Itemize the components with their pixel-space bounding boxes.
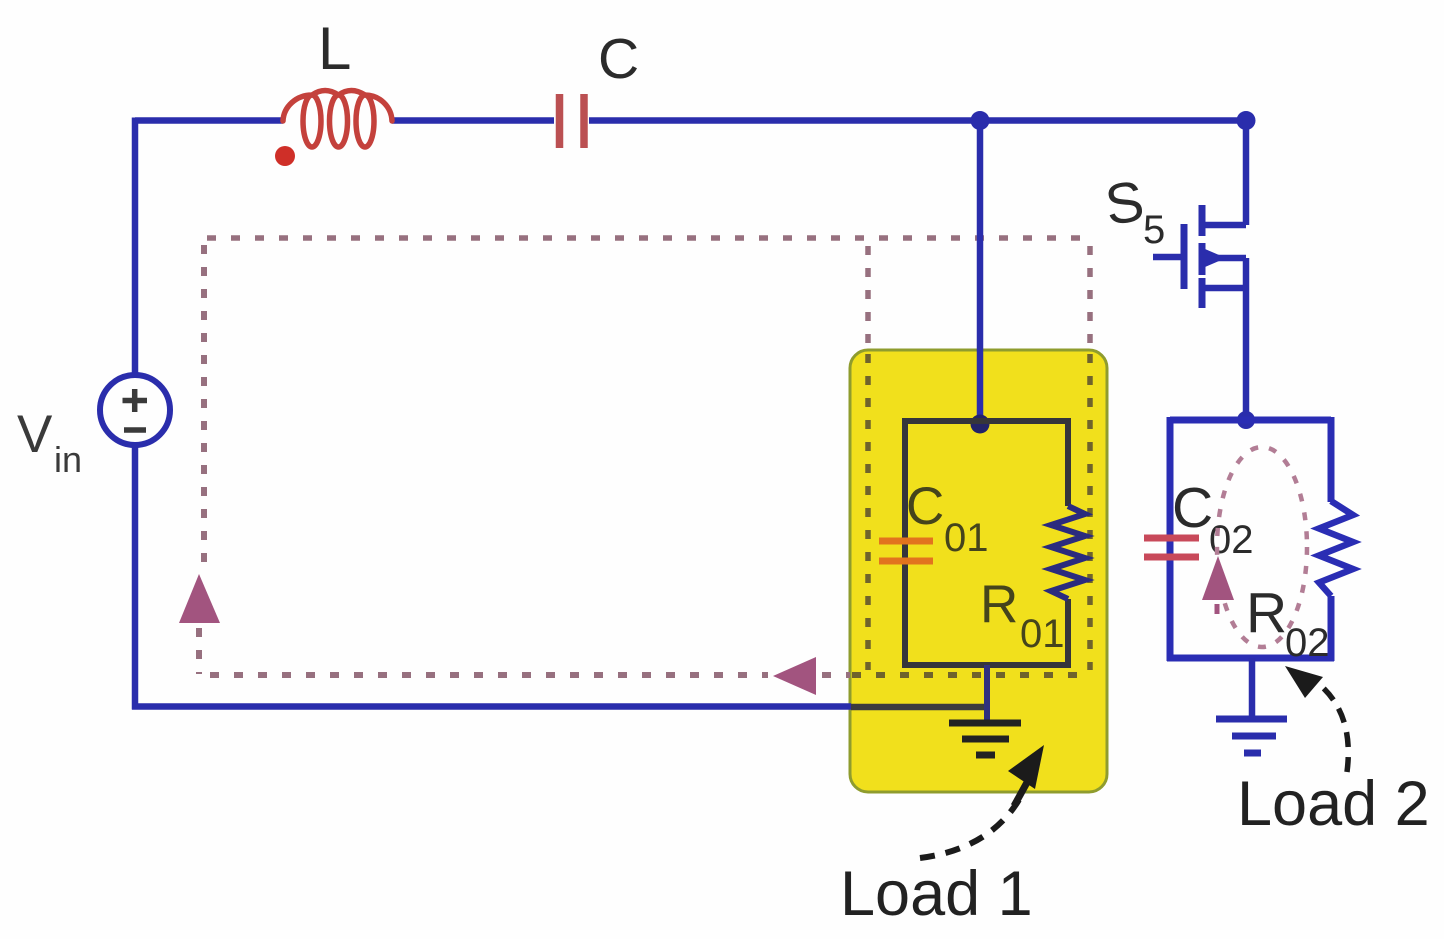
current direction arrow (left) on bottom dashed segment xyxy=(773,657,816,695)
svg-text:R: R xyxy=(980,575,1018,634)
current direction arrow (up) on left dashed segment xyxy=(179,574,220,623)
dashed current-loop bottom segment after arrow xyxy=(822,672,850,678)
annotation arrow to Load 1 xyxy=(920,798,1020,858)
svg-text:02: 02 xyxy=(1209,518,1254,562)
ground stem Load 2 xyxy=(1249,658,1256,718)
wire: bottom horizontal dark segment inside Load 1 box xyxy=(851,704,987,711)
dashed current-loop left segment lower xyxy=(196,628,202,674)
MOSFET S5: source horizontal xyxy=(1202,285,1246,292)
wire: center vertical drop to Load 1 xyxy=(977,121,984,422)
svg-text:02: 02 xyxy=(1285,621,1330,665)
wire: inductor to capacitor C xyxy=(392,117,554,124)
inductor polarity dot xyxy=(275,146,295,166)
capacitor C01 plates xyxy=(879,541,933,561)
dashed loop right vertical at x=1090 (on yellow) xyxy=(1087,354,1093,670)
MOSFET S5: gate lead xyxy=(1153,254,1181,261)
Load 2 box: left xyxy=(1167,417,1174,661)
Load 1 highlight box (yellow) xyxy=(850,350,1107,792)
MOSFET S5: drain vertical xyxy=(1243,118,1250,226)
Load 2 box: right lower xyxy=(1328,596,1335,661)
node: junction dot top right xyxy=(1237,111,1256,130)
dashed current-loop bottom segment (on yellow) xyxy=(852,672,1090,678)
capacitor C plates xyxy=(560,94,585,148)
Load 1 inner loop: top xyxy=(905,418,1068,424)
resistor R02 zigzag xyxy=(1319,501,1353,596)
MOSFET S5: middle channel contact bar xyxy=(1199,243,1206,275)
Load 1 inner loop: right upper xyxy=(1065,418,1071,506)
wire: left vertical lower (Vin bottom) xyxy=(132,444,851,710)
MOSFET S5: body horizontal with arrow xyxy=(1202,255,1246,262)
wire: top left horizontal to inductor xyxy=(135,117,283,124)
svg-text:C: C xyxy=(906,477,944,536)
Load 2 box: bottom xyxy=(1167,655,1334,662)
annotation arrow to Load 2 xyxy=(1314,680,1348,772)
Load 1 inner loop: left xyxy=(902,418,908,668)
dashed current-loop left segment xyxy=(201,245,207,570)
MOSFET S5: bottom channel contact bar xyxy=(1199,278,1206,308)
svg-text:L: L xyxy=(318,15,351,82)
MOSFET S5: gate bar xyxy=(1181,224,1188,289)
svg-text:Load 2: Load 2 xyxy=(1237,769,1430,839)
svg-text:R: R xyxy=(1246,581,1287,645)
dashed loop inner vertical at x=868 (white part) xyxy=(865,246,871,350)
dashed loop inner vertical at x=868 (on yellow) xyxy=(865,354,871,670)
Load 1 inner loop: bottom xyxy=(902,662,1071,668)
MOSFET S5: drain horizontal xyxy=(1202,222,1246,229)
wire: left vertical upper (Vin top) xyxy=(132,118,139,378)
Load 1 inner loop: right lower xyxy=(1065,599,1071,668)
wire: capacitor C to top-right corner xyxy=(589,117,1246,124)
dashed loop right vertical at x=1090 (white part) xyxy=(1087,246,1093,350)
MOSFET S5: source vertical down to Load 2 xyxy=(1243,258,1250,420)
svg-text:Load 1: Load 1 xyxy=(840,859,1033,929)
circulation arrow (up) in Load 2 xyxy=(1202,556,1234,600)
resistor R01 zigzag xyxy=(1051,506,1085,599)
node: junction dot at Load 1 top xyxy=(971,415,990,434)
ground symbol Load 1 xyxy=(949,720,1021,727)
svg-text:V: V xyxy=(17,405,53,464)
ground stem Load 1 xyxy=(984,665,990,722)
voltage source Vin xyxy=(100,375,170,445)
svg-text:01: 01 xyxy=(944,516,989,560)
ground symbol Load 2 xyxy=(1216,716,1287,723)
Load 2 box: right upper xyxy=(1328,417,1335,502)
svg-text:01: 01 xyxy=(1020,612,1065,656)
svg-text:in: in xyxy=(54,439,82,480)
inductor L xyxy=(283,91,392,148)
capacitor C02 plates xyxy=(1144,538,1199,557)
node: junction dot top center xyxy=(971,111,990,130)
svg-text:5: 5 xyxy=(1143,208,1165,252)
dashed circulation ellipse in Load 2 xyxy=(1217,447,1307,647)
MOSFET S5: top channel contact bar xyxy=(1199,205,1206,236)
dashed current-loop top segment xyxy=(207,235,1090,241)
node: junction dot at Load 2 top xyxy=(1237,411,1255,429)
dashed current-loop bottom segment (white bg part) xyxy=(210,672,768,678)
svg-text:C: C xyxy=(1172,476,1213,540)
Load 2 box: top xyxy=(1170,417,1331,424)
svg-text:C: C xyxy=(598,27,639,91)
